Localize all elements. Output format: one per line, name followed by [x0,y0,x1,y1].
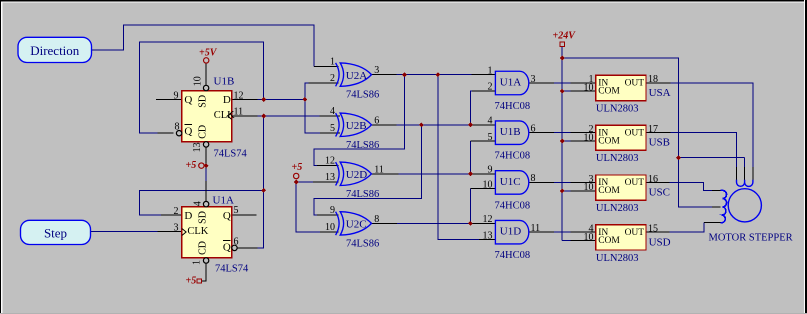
svg-text:OUT: OUT [625,228,645,238]
svg-text:SD: SD [198,95,209,108]
svg-text:D: D [223,94,231,106]
svg-text:1: 1 [330,56,335,67]
svg-text:11: 11 [234,107,244,118]
svg-text:10: 10 [584,232,594,243]
svg-text:10: 10 [483,179,493,190]
svg-text:SD: SD [198,211,209,224]
svg-text:3: 3 [174,223,179,234]
svg-text:COM: COM [598,236,620,246]
svg-text:4: 4 [193,201,204,206]
svg-text:USA: USA [649,87,671,99]
svg-text:U1B: U1B [214,76,235,88]
svg-text:10: 10 [584,83,594,94]
svg-text:OUT: OUT [625,128,645,138]
svg-text:11: 11 [531,223,541,234]
svg-text:USD: USD [649,236,671,248]
svg-text:Q: Q [184,125,192,137]
svg-text:U1A: U1A [500,76,521,88]
svg-text:U2D: U2D [346,169,367,181]
svg-text:11: 11 [374,164,384,175]
svg-text:15: 15 [648,224,658,235]
svg-text:MOTOR STEPPER: MOTOR STEPPER [709,233,793,244]
svg-text:U2A: U2A [346,70,367,82]
svg-text:2: 2 [330,73,335,84]
svg-text:5: 5 [330,123,335,134]
svg-text:13: 13 [325,172,335,183]
svg-text:16: 16 [648,174,658,185]
svg-text:10: 10 [584,182,594,193]
svg-text:12: 12 [325,156,335,167]
svg-text:ULN2803: ULN2803 [596,203,639,214]
svg-text:12: 12 [234,91,244,102]
svg-text:74HC08: 74HC08 [495,101,531,112]
svg-text:+5V: +5V [199,47,218,58]
svg-text:COM: COM [598,87,620,97]
svg-text:9: 9 [330,205,335,216]
svg-text:12: 12 [483,214,493,225]
svg-text:9: 9 [174,91,179,102]
svg-text:Q: Q [184,94,192,106]
svg-text:+5: +5 [292,162,303,173]
svg-text:U1A: U1A [213,195,234,207]
svg-text:10: 10 [584,132,594,143]
svg-text:6: 6 [374,115,379,126]
svg-text:4: 4 [488,116,493,127]
svg-text:6: 6 [531,124,536,135]
svg-text:U2B: U2B [346,120,367,132]
svg-text:74LS74: 74LS74 [215,264,249,275]
svg-text:6: 6 [234,236,239,247]
svg-text:Q: Q [223,210,231,222]
svg-text:Q: Q [223,241,231,253]
svg-text:5: 5 [488,132,493,143]
svg-text:5: 5 [234,205,239,216]
svg-text:ULN2803: ULN2803 [596,253,639,264]
svg-text:ULN2803: ULN2803 [596,103,639,114]
svg-text:74LS86: 74LS86 [346,90,379,101]
svg-text:4: 4 [330,106,335,117]
svg-text:1: 1 [488,65,493,76]
svg-text:CD: CD [198,241,209,255]
svg-text:9: 9 [488,165,493,176]
svg-text:+5: +5 [186,276,197,287]
svg-text:USB: USB [649,137,670,149]
svg-text:74LS86: 74LS86 [346,189,379,200]
svg-text:10: 10 [325,222,335,233]
svg-text:13: 13 [192,142,203,152]
svg-text:COM: COM [598,136,620,146]
svg-text:U2C: U2C [346,219,367,231]
svg-text:3: 3 [374,65,379,76]
svg-text:2: 2 [488,82,493,93]
svg-text:+24V: +24V [553,31,577,42]
svg-text:8: 8 [175,122,180,133]
svg-text:17: 17 [648,124,658,135]
svg-text:1: 1 [192,260,203,265]
svg-text:8: 8 [374,214,379,225]
svg-text:74HC08: 74HC08 [495,151,531,162]
svg-text:10: 10 [193,76,204,86]
svg-text:COM: COM [598,186,620,196]
svg-text:OUT: OUT [625,178,645,188]
svg-text:Step: Step [44,225,67,240]
svg-text:74HC08: 74HC08 [495,250,531,261]
svg-text:74LS86: 74LS86 [346,140,379,151]
svg-text:74HC08: 74HC08 [495,200,531,211]
svg-text:U1D: U1D [500,226,521,238]
svg-text:8: 8 [531,173,536,184]
svg-text:CLK: CLK [187,226,208,237]
svg-text:74LS74: 74LS74 [214,149,248,160]
svg-text:2: 2 [174,206,179,217]
svg-text:13: 13 [483,230,493,241]
svg-text:CD: CD [198,125,209,139]
svg-text:Direction: Direction [30,43,80,58]
svg-text:USC: USC [649,187,670,199]
svg-text:U1C: U1C [500,176,521,188]
svg-text:OUT: OUT [625,79,645,89]
svg-text:+5: +5 [186,160,197,171]
svg-text:D: D [184,210,192,222]
svg-text:18: 18 [648,74,658,85]
svg-text:3: 3 [531,74,536,85]
svg-text:ULN2803: ULN2803 [596,153,639,164]
svg-text:74LS86: 74LS86 [346,238,379,249]
svg-text:U1B: U1B [500,126,521,138]
